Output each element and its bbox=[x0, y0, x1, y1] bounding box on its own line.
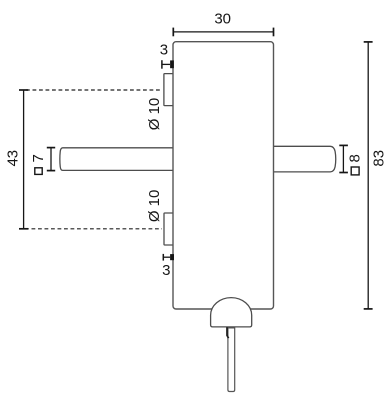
dim 83 line bbox=[367, 42, 369, 309]
dim 8 line bbox=[342, 145, 344, 172]
dim 30 line bbox=[173, 31, 273, 33]
svg-text:Ø 10: Ø 10 bbox=[146, 190, 163, 223]
square symbol 8 bbox=[351, 167, 359, 175]
dim 3 bottom tick bbox=[162, 254, 164, 261]
spindle right square8 bbox=[274, 146, 336, 172]
dim 8 tick bottom bbox=[339, 172, 348, 174]
dim 83 tick bottom bbox=[364, 308, 373, 310]
svg-text:3: 3 bbox=[162, 262, 170, 279]
svg-text:30: 30 bbox=[214, 10, 231, 27]
dim 7 tick bottom bbox=[47, 170, 55, 172]
dim 8 tick top bbox=[339, 144, 348, 146]
svg-text:Ø 10: Ø 10 bbox=[146, 98, 163, 131]
cable gland dome bbox=[211, 298, 252, 327]
dim 3 top line bbox=[162, 63, 170, 65]
cable strain relief detail bbox=[227, 327, 229, 338]
dim 30 tick right bbox=[273, 28, 275, 37]
dim 43 line bbox=[23, 90, 25, 229]
boss top bbox=[164, 74, 174, 106]
boss bottom bbox=[164, 213, 173, 245]
dim 3 bottom arrow block bbox=[170, 254, 174, 260]
centerline top bbox=[26, 89, 162, 91]
dim 3 top tick bbox=[161, 60, 163, 68]
svg-text:43: 43 bbox=[5, 150, 22, 167]
dim 83 tick top bbox=[364, 41, 373, 43]
square symbol 7 bbox=[35, 168, 42, 175]
dim 30 tick left bbox=[172, 28, 174, 37]
dim 7 line bbox=[50, 148, 52, 171]
svg-text:3: 3 bbox=[160, 41, 168, 58]
svg-text:8: 8 bbox=[346, 154, 363, 162]
spindle left square7 bbox=[60, 148, 173, 171]
body bbox=[173, 42, 274, 309]
dim 3 top arrow block bbox=[170, 60, 174, 68]
centerline bottom bbox=[25, 228, 162, 230]
svg-text:83: 83 bbox=[371, 150, 388, 167]
svg-text:7: 7 bbox=[30, 154, 47, 162]
dim 43 tick bottom bbox=[19, 228, 28, 230]
dim 3 bottom line bbox=[163, 256, 170, 258]
dim 7 tick top bbox=[47, 147, 55, 149]
cable bbox=[228, 328, 235, 392]
dim 43 tick top bbox=[19, 89, 28, 91]
